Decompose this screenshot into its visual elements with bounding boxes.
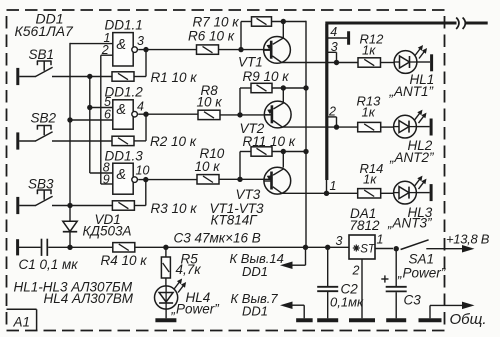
wire R6 to VT1 base bbox=[219, 49, 272, 51]
svg-text:С3 47мк×16 В: С3 47мк×16 В bbox=[174, 231, 261, 246]
svg-text:&: & bbox=[116, 102, 126, 118]
svg-text:„ANT1”: „ANT1” bbox=[389, 84, 434, 99]
resistor R8 10k bbox=[197, 83, 223, 120]
ground DA1 bbox=[349, 318, 375, 322]
to pin 14 of DD1 arrow bbox=[230, 247, 306, 279]
common output with ground bbox=[419, 302, 487, 328]
wire supply bottom rail bbox=[135, 246, 349, 248]
wire R11 to emitter node and rail bbox=[272, 151, 306, 153]
svg-text:R9 10 к: R9 10 к bbox=[243, 69, 290, 84]
ground C3 bbox=[386, 318, 406, 322]
wire DD1.1 output to R1 bbox=[134, 50, 197, 77]
line break symbol bbox=[456, 18, 465, 30]
svg-text:2: 2 bbox=[352, 264, 360, 278]
svg-text:&: & bbox=[116, 167, 126, 183]
svg-text:3: 3 bbox=[331, 40, 338, 54]
wire R7 to emitter node bbox=[272, 21, 307, 23]
svg-text:HL4 АЛ307ВМ: HL4 АЛ307ВМ bbox=[44, 291, 134, 306]
wire VT2 emitter drop bbox=[282, 88, 284, 103]
svg-text:4,7к: 4,7к bbox=[176, 262, 202, 277]
wire DD1.3 output to R3 bbox=[134, 180, 197, 206]
svg-text:VT3: VT3 bbox=[236, 187, 261, 202]
svg-text:КД503А: КД503А bbox=[83, 224, 132, 239]
node connector contact 1 junction bbox=[324, 179, 329, 196]
wire vertical SB1 node to pin8 bbox=[89, 76, 91, 173]
wire DD1.3 pin8 bbox=[90, 172, 113, 174]
wire DD1.2 output to R2 bbox=[134, 114, 198, 141]
node rail junction stage3 bbox=[303, 149, 308, 154]
svg-text:DD1: DD1 bbox=[242, 264, 268, 279]
transistor VT3 КТ814Г (PNP) bbox=[236, 167, 291, 202]
pushbutton SB3 bbox=[18, 177, 113, 215]
svg-text:R4 10 к: R4 10 к bbox=[101, 253, 148, 268]
svg-text:1к: 1к bbox=[363, 172, 377, 187]
node VT3 base junction bbox=[237, 177, 242, 182]
contact 4 stub with terminal bbox=[328, 31, 349, 45]
wire VT1 emitter drop bbox=[282, 22, 284, 39]
capacitor C1 0.1uF bbox=[18, 239, 113, 272]
svg-text:SA1: SA1 bbox=[409, 252, 435, 267]
resistor R10 10k bbox=[195, 146, 225, 184]
svg-text:&: & bbox=[116, 37, 126, 53]
node SB1 junction bbox=[87, 74, 92, 79]
resistor R12 1k bbox=[358, 32, 384, 68]
svg-text:4: 4 bbox=[137, 100, 144, 114]
svg-text:R7 10 к: R7 10 к bbox=[193, 15, 240, 30]
wire VT3 emitter drop bbox=[282, 152, 284, 168]
resistor R5 4.7k bbox=[161, 247, 201, 286]
svg-text:4: 4 bbox=[330, 25, 337, 39]
LED HL4 Power bbox=[155, 279, 220, 319]
resistor R9 10k bbox=[243, 69, 290, 93]
svg-text:+13,8 В: +13,8 В bbox=[446, 232, 490, 247]
svg-text:0,1мк: 0,1мк bbox=[330, 295, 364, 310]
wire base node up to R7 bbox=[241, 22, 252, 50]
node rail-DA1 junction bbox=[303, 245, 308, 250]
svg-text:DD1: DD1 bbox=[242, 303, 268, 318]
voltage regulator DA1 7812 bbox=[349, 206, 380, 259]
thick antenna feed line (bus) bbox=[325, 23, 487, 180]
wire base node up to R11 bbox=[240, 152, 251, 180]
IC label DD1 К561ЛА7 bbox=[15, 11, 75, 40]
svg-text:1: 1 bbox=[330, 179, 337, 193]
wire R13 to HL2 bbox=[381, 126, 394, 128]
wire R8 to VT2 base bbox=[220, 114, 272, 116]
ground HL4 bbox=[155, 318, 176, 322]
node DD1.3 output junction bbox=[143, 177, 148, 182]
node VT3 emitter-R11 junction bbox=[281, 149, 286, 154]
to pin 7 of DD1 arrow with ground bbox=[231, 291, 313, 321]
svg-text:2: 2 bbox=[328, 104, 336, 118]
svg-text:1: 1 bbox=[377, 233, 384, 247]
node rail junction stage2 bbox=[303, 85, 308, 90]
svg-text:R6 10 к: R6 10 к bbox=[188, 29, 235, 44]
op gate DD1.1 (NAND) bbox=[105, 18, 143, 67]
wire DD1.1 pin1 bbox=[70, 43, 113, 45]
node R5 junction bbox=[163, 245, 168, 250]
svg-text:7812: 7812 bbox=[350, 218, 381, 233]
LED HL2 ANT2 bbox=[389, 110, 434, 165]
wire vertical pin2 to pin9 bbox=[100, 55, 102, 184]
resistor R1 10k bbox=[112, 70, 197, 85]
resistor R3 10k bbox=[112, 201, 197, 216]
pushbutton SB2 bbox=[18, 111, 113, 150]
svg-text:10 к: 10 к bbox=[195, 159, 221, 174]
svg-text:К561ЛА7: К561ЛА7 bbox=[15, 23, 75, 39]
svg-text:A1: A1 bbox=[13, 315, 31, 330]
svg-text:R11 10 к: R11 10 к bbox=[243, 134, 296, 149]
wire DD1.2 pin5 bbox=[90, 107, 113, 109]
svg-text:Общ.: Общ. bbox=[450, 311, 487, 328]
node pin5 junction bbox=[87, 105, 92, 110]
block designator A1 bbox=[7, 309, 37, 330]
pushbutton SB1 bbox=[18, 47, 113, 85]
switch SA1 Power bbox=[397, 240, 475, 281]
node connector contact 3 junction bbox=[328, 52, 339, 65]
capacitor C3 47uF (polarized) bbox=[381, 249, 421, 319]
node VT2 emitter-R9 junction bbox=[281, 85, 286, 90]
node connector contact 2 junction bbox=[328, 117, 339, 130]
svg-text:SB3: SB3 bbox=[28, 177, 54, 192]
svg-text:„ANT2”: „ANT2” bbox=[389, 150, 434, 165]
resistor R13 1k bbox=[357, 94, 382, 132]
node VT1 emitter-R7 junction bbox=[281, 19, 286, 24]
svg-text:„ANT3”: „ANT3” bbox=[387, 216, 432, 231]
svg-text:ST: ST bbox=[360, 244, 376, 256]
svg-text:„Power”: „Power” bbox=[397, 266, 446, 281]
LED HL1 ANT1 bbox=[389, 45, 435, 99]
svg-text:КТ814Г: КТ814Г bbox=[211, 213, 259, 228]
svg-text:C1 0,1 мк: C1 0,1 мк bbox=[19, 257, 79, 272]
svg-text:10 к: 10 к bbox=[197, 95, 223, 110]
wire vertical pin1 to VD1 node bbox=[69, 43, 71, 222]
svg-text:1к: 1к bbox=[362, 43, 376, 58]
wire +12V rail corner and vertical bbox=[305, 21, 307, 248]
node pin6 junction bbox=[67, 117, 72, 122]
transistor type label VT1-VT3 КТ814Г bbox=[210, 201, 265, 228]
svg-text:1к: 1к bbox=[362, 105, 376, 120]
wire base node up to R9 bbox=[240, 88, 251, 115]
svg-text:3: 3 bbox=[336, 234, 343, 248]
diode VD1 КД503А bbox=[63, 212, 132, 247]
wire VT3 collector bbox=[282, 192, 358, 194]
resistor R4 10k bbox=[101, 243, 148, 268]
svg-text:DD1.3: DD1.3 bbox=[105, 149, 144, 164]
resistor R14 1k bbox=[358, 161, 384, 198]
resistor R6 10k bbox=[188, 29, 235, 55]
resistor R11 10k bbox=[243, 134, 296, 156]
wire DD1.3 pin9 bbox=[101, 183, 113, 185]
node C1-VD1 junction bbox=[67, 245, 72, 250]
resistor R7 10k bbox=[193, 15, 272, 30]
node VT1 base junction bbox=[238, 47, 243, 52]
node SA1-C3 junction bbox=[394, 246, 399, 251]
wire R10 to VT3 base bbox=[219, 178, 272, 180]
capacitor C2 0.1uF bbox=[317, 247, 364, 318]
wire DD1.1 pin2 bbox=[101, 54, 113, 56]
LED HL3 ANT3 bbox=[387, 176, 433, 231]
svg-text:10: 10 bbox=[136, 164, 150, 178]
node C2 junction bbox=[325, 245, 330, 250]
resistor R2 10k bbox=[112, 134, 197, 149]
svg-text:C3: C3 bbox=[404, 293, 422, 308]
op gate DD1.2 (NAND) bbox=[105, 85, 144, 130]
svg-text:SB2: SB2 bbox=[31, 111, 57, 126]
wire DD1.2 pin6 bbox=[70, 119, 113, 121]
svg-text:VT1: VT1 bbox=[238, 55, 263, 70]
LED type label bbox=[14, 280, 134, 307]
wire VT2 collector bbox=[282, 126, 358, 128]
node VT2 base junction bbox=[237, 112, 242, 117]
transistor VT1 КТ814Г (PNP) bbox=[238, 37, 290, 70]
op gate DD1.3 (NAND) bbox=[105, 149, 144, 195]
svg-text:SB1: SB1 bbox=[29, 47, 55, 62]
node DD1.2 output junction bbox=[143, 112, 148, 117]
wire VT1 collector bbox=[282, 62, 359, 64]
wire DA1 ground pin bbox=[361, 259, 363, 318]
node SB3 junction bbox=[67, 203, 72, 208]
node DD1.1 output junction bbox=[143, 47, 148, 52]
svg-text:„Power”: „Power” bbox=[171, 302, 220, 317]
svg-text:R3 10 к: R3 10 к bbox=[151, 201, 198, 216]
wire DA1 output right bbox=[375, 248, 393, 250]
svg-text:R2 10 к: R2 10 к bbox=[150, 134, 197, 149]
transistor VT2 КТ814Г (PNP) bbox=[240, 101, 292, 136]
svg-text:R1 10 к: R1 10 к bbox=[151, 70, 198, 85]
wire R9 to emitter node and rail bbox=[272, 87, 306, 89]
wire R14 to HL3 bbox=[381, 192, 394, 194]
ground C2 bbox=[317, 318, 338, 322]
wire R12 to HL1 bbox=[381, 62, 395, 64]
svg-text:3: 3 bbox=[137, 34, 144, 48]
